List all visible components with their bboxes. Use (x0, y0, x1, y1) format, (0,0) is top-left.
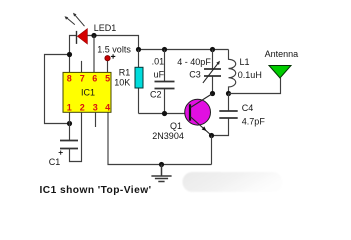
wire: LED anode to bus corner (87, 36, 138, 50)
wire: C1 bottom loop to pin 2 (70, 112, 82, 161)
junction: C3 top on bus (210, 47, 215, 52)
svg-text:2N3904: 2N3904 (152, 131, 184, 141)
LED LED1 light arrow 2 (74, 14, 85, 26)
svg-text:4 - 40pF: 4 - 40pF (177, 57, 211, 67)
wire: pin 1 to C1 (69, 112, 71, 140)
wire: pin 5 to battery + (107, 61, 109, 72)
capacitor C4 plates (219, 111, 237, 118)
wire: pin 4 to ground rail (108, 112, 212, 164)
wire: pin 6 (93, 36, 95, 73)
transistor Q1 emitter (191, 117, 212, 136)
wire: base rail (R1/C2 to Q1 base) (139, 113, 190, 115)
svg-text:0.1uH: 0.1uH (238, 70, 262, 80)
svg-text:3: 3 (93, 103, 98, 113)
capacitor C1 polarity + (59, 151, 63, 155)
transistor Q1 collector (191, 94, 213, 108)
junction: collector / C3 bottom node (210, 91, 215, 96)
capacitor C3 leads (212, 50, 214, 94)
capacitor C3 trimmer arrow (203, 63, 219, 83)
LED LED1 red triangle (77, 29, 87, 44)
svg-text:10K: 10K (114, 78, 130, 88)
svg-text:7: 7 (80, 74, 85, 84)
wire: LED cathode lead down to node A and pin 8 (70, 36, 77, 73)
svg-text:1.5 volts: 1.5 volts (97, 45, 131, 55)
svg-text:C3: C3 (189, 69, 201, 79)
capacitor C3 plates (204, 69, 221, 76)
svg-text:LED1: LED1 (94, 23, 117, 33)
svg-text:IC1 shown 'Top-View': IC1 shown 'Top-View' (40, 185, 152, 196)
wire: pin 7 stub (81, 61, 83, 73)
junction: ground node (159, 162, 164, 167)
junction: C2 bottom / base rail (162, 111, 167, 116)
wire: pin 3 stub (95, 112, 97, 127)
svg-text:8: 8 (67, 74, 72, 84)
svg-text:5: 5 (105, 74, 110, 84)
junction: pin 1 / C1 / left rail (67, 121, 72, 126)
svg-text:R1: R1 (119, 68, 131, 78)
svg-text:2: 2 (80, 103, 85, 113)
wire: top supply bus (139, 49, 229, 51)
wire: antenna feed (229, 78, 281, 94)
capacitor C2 leads (164, 50, 166, 114)
IC U1 body (63, 72, 111, 112)
transistor Q1 body (185, 99, 211, 125)
ground symbol (151, 165, 171, 182)
antenna symbol (269, 66, 291, 79)
wire: emitter node to ground rail (211, 136, 213, 165)
svg-text:.01: .01 (152, 57, 165, 67)
LED LED1 light arrow 1 (66, 17, 75, 25)
junction: L1 bottom / C4 / antenna node (226, 91, 231, 96)
capacitor C4 leads (212, 94, 229, 136)
svg-text:Antenna: Antenna (265, 49, 299, 59)
capacitor C2 plates (155, 82, 175, 89)
capacitor C1 plates (60, 141, 78, 149)
battery positive terminal red dot (105, 56, 110, 61)
svg-text:6: 6 (92, 74, 97, 84)
LED LED1 cathode bar (76, 31, 78, 44)
transistor Q1 base bar (189, 104, 191, 120)
junction: C2 top on bus (162, 47, 167, 52)
junction node A (pin 8 / LED cathode) (67, 52, 72, 57)
svg-text:L1: L1 (240, 57, 250, 67)
resistor R1 body (135, 67, 143, 88)
junction node B (LED anode / pin 6) (91, 33, 96, 38)
inductor L1 (229, 50, 236, 94)
resistor R1 leads (138, 50, 140, 114)
svg-text:C4: C4 (242, 103, 254, 113)
svg-text:uF: uF (154, 69, 165, 79)
label + (battery) (111, 54, 115, 58)
svg-text:C2: C2 (150, 89, 162, 99)
svg-text:IC1: IC1 (81, 88, 95, 98)
junction: emitter / C4 bottom node (209, 133, 214, 138)
svg-text:1: 1 (67, 103, 72, 113)
junction: bus / R1 top (136, 47, 141, 52)
wire: left rail (node A to pin1/C1 node) (45, 55, 70, 124)
svg-text:Q1: Q1 (170, 121, 182, 131)
svg-text:C1: C1 (49, 157, 61, 167)
svg-text:4: 4 (105, 103, 110, 113)
svg-text:4.7pF: 4.7pF (242, 116, 266, 126)
